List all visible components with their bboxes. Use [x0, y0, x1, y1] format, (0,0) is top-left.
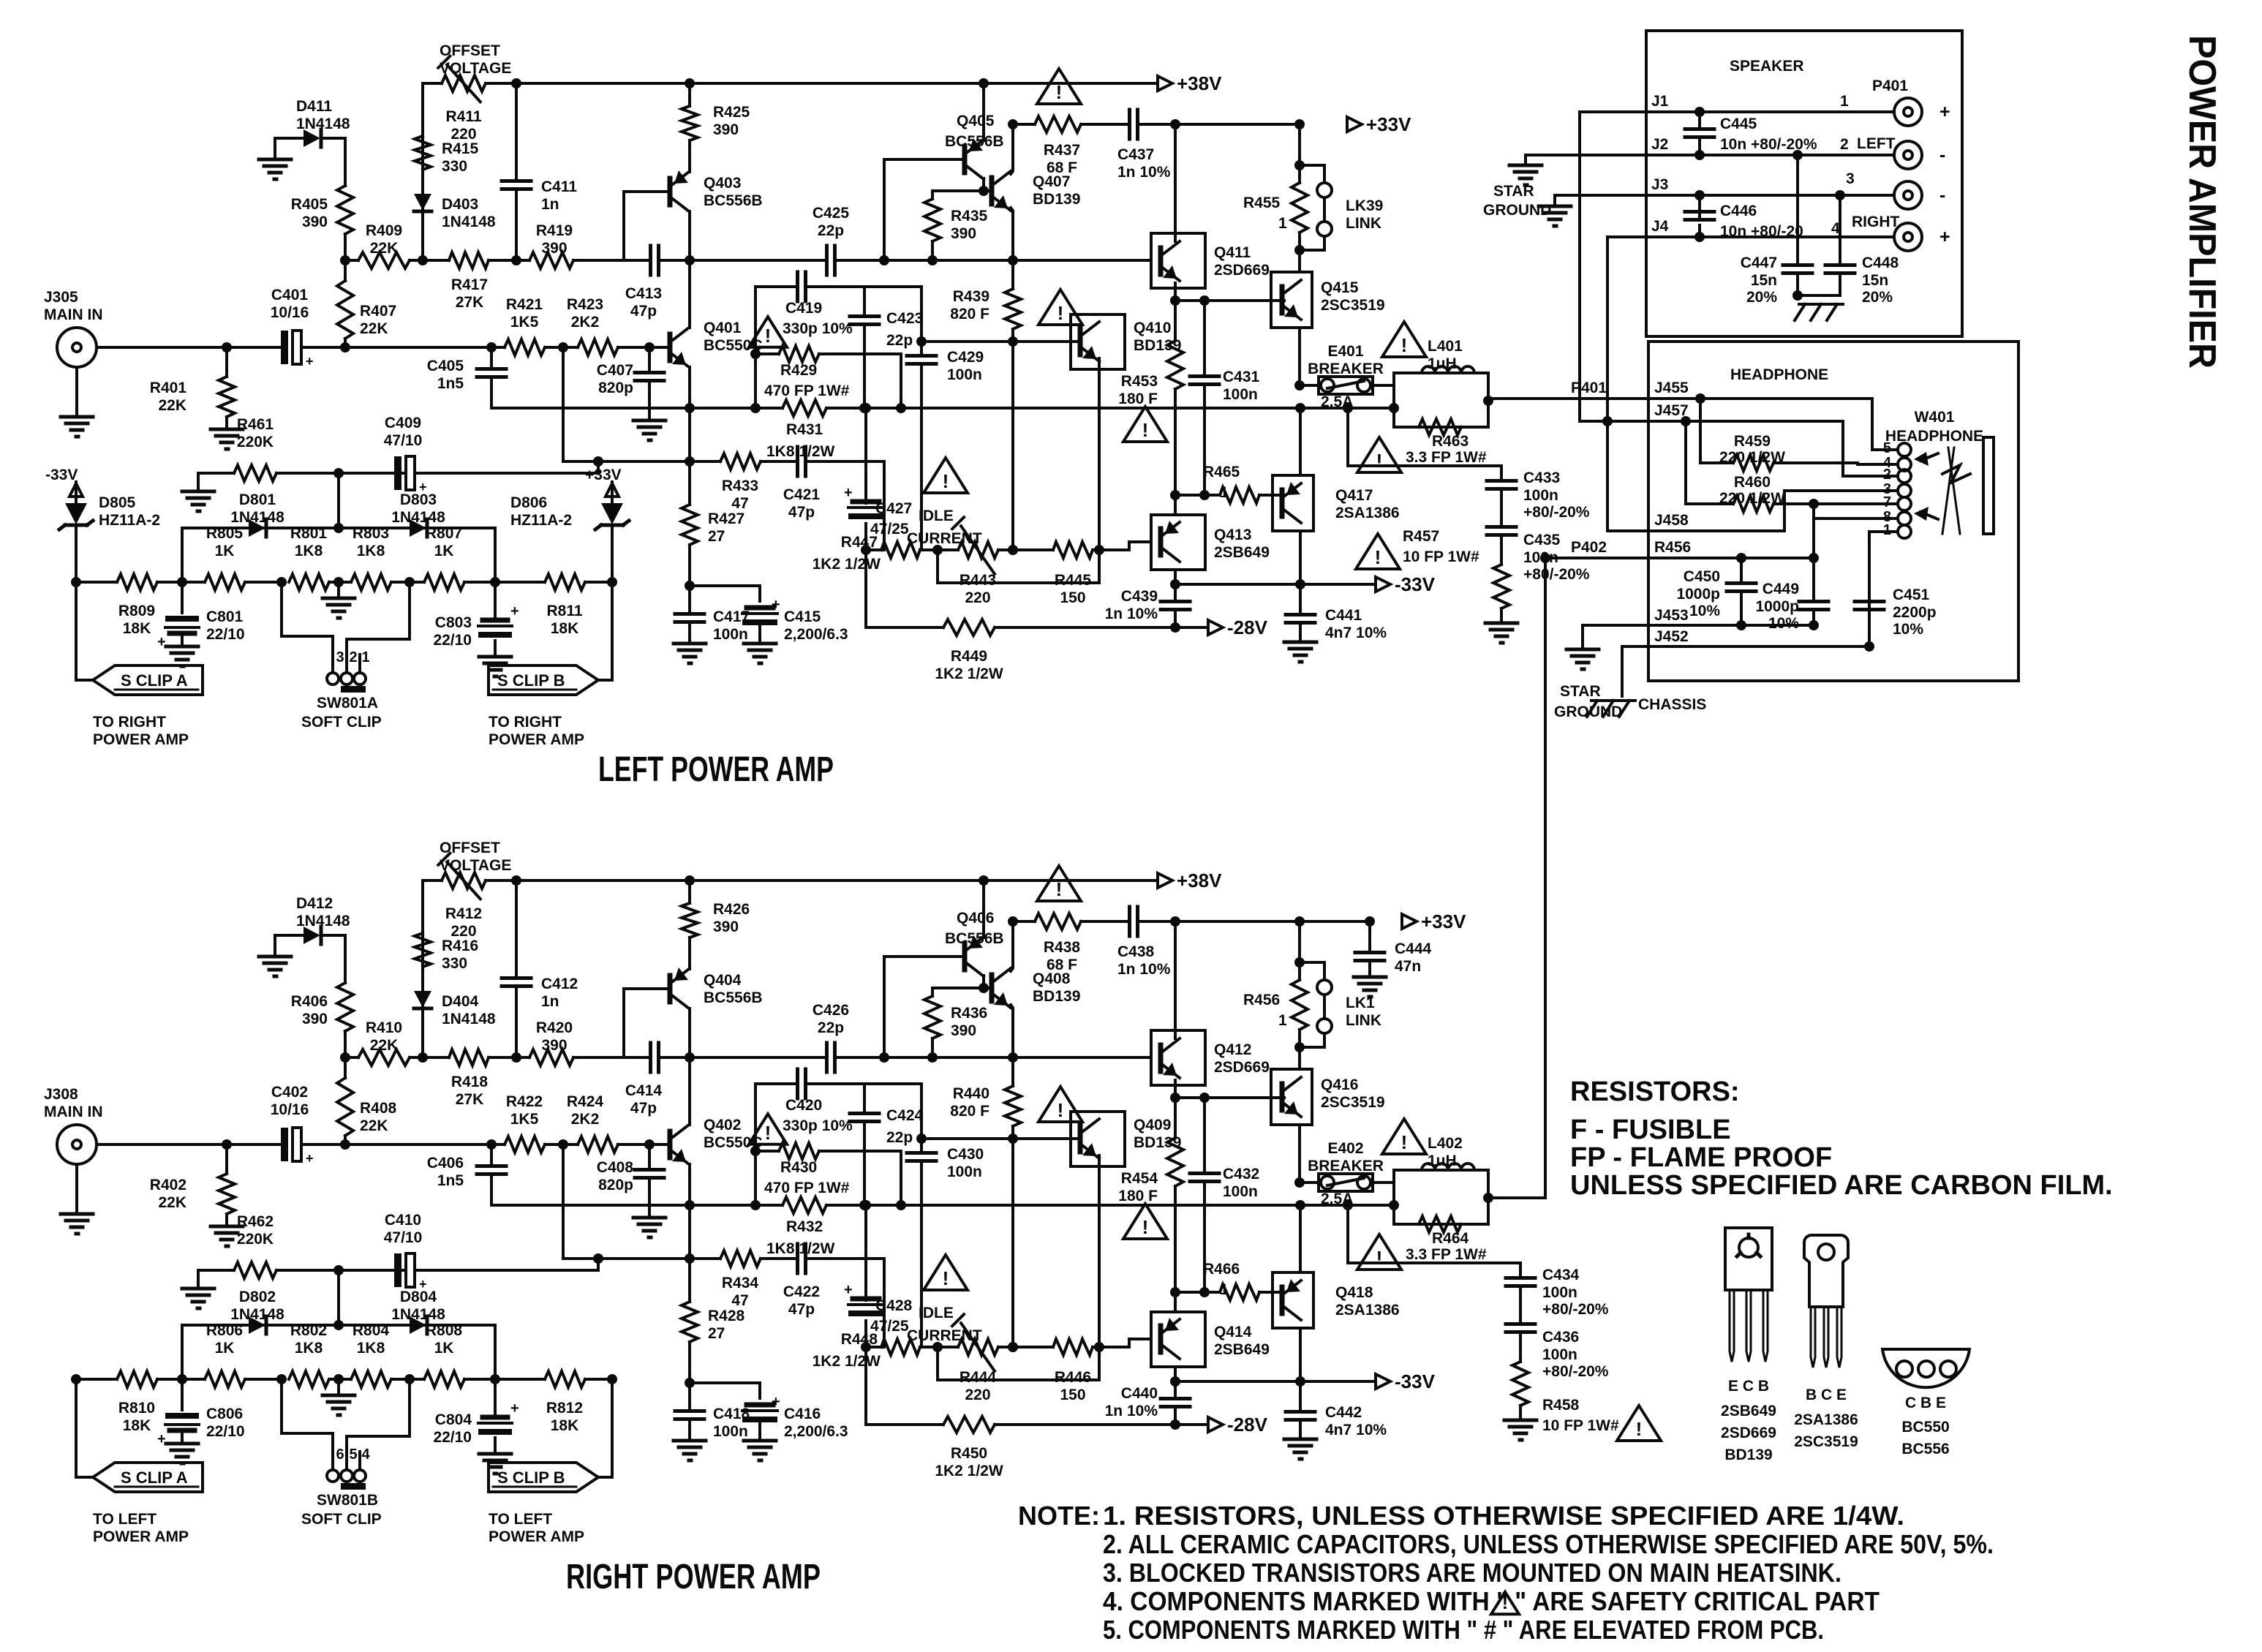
- svg-text:7: 7: [1883, 494, 1891, 510]
- svg-text:!: !: [765, 325, 772, 347]
- svg-text:!: !: [1142, 1216, 1149, 1238]
- ground: [744, 644, 776, 663]
- capacitor C416 2,200/6.3: [742, 1394, 848, 1441]
- wire: [688, 1164, 691, 1302]
- safety warning triangle: [1123, 407, 1167, 442]
- wire: [688, 1008, 691, 1057]
- svg-text:1n 10%: 1n 10%: [1105, 606, 1158, 622]
- svg-text:5: 5: [1883, 440, 1891, 456]
- junction: [1008, 1134, 1018, 1144]
- svg-text:R806: R806: [206, 1322, 243, 1339]
- svg-text:1: 1: [361, 649, 369, 665]
- ground: [61, 417, 93, 437]
- svg-text:1n 10%: 1n 10%: [1117, 164, 1171, 181]
- wire: [1298, 921, 1301, 962]
- svg-text:C426: C426: [813, 1002, 849, 1019]
- capacitor C440 1n 10%: [1105, 1381, 1190, 1425]
- capacitor C427 47/25: [844, 408, 912, 627]
- capacitor C414 47p: [624, 1043, 690, 1117]
- svg-text:330p 10%: 330p 10%: [783, 1117, 853, 1134]
- transistor Q412 2SD669: [1151, 1030, 1270, 1085]
- svg-text:R803: R803: [353, 525, 389, 542]
- svg-text:!: !: [1376, 450, 1383, 472]
- junction: [685, 456, 695, 467]
- diode D404 1N4148: [414, 967, 496, 1057]
- svg-text:220 1/2W: 220 1/2W: [1719, 449, 1785, 466]
- svg-text:15n: 15n: [1862, 272, 1888, 289]
- svg-text:18K: 18K: [123, 620, 151, 637]
- ground: [633, 420, 666, 440]
- wire Q405 base: [884, 159, 965, 260]
- svg-text:C436: C436: [1542, 1329, 1579, 1346]
- svg-text:R426: R426: [713, 901, 750, 918]
- wire: [274, 935, 276, 957]
- junction: [979, 78, 989, 88]
- svg-text:2. ALL CERAMIC CAPACITORS, UNL: 2. ALL CERAMIC CAPACITORS, UNLESS OTHERW…: [1103, 1529, 1994, 1559]
- junction: [1094, 545, 1104, 555]
- resistor R802 1K8: [289, 1322, 339, 1387]
- capacitor C409 47/10: [384, 415, 427, 494]
- connector P401 pin2 -: [1894, 141, 1945, 169]
- capacitor C435 100n +80/-20%: [1487, 527, 1590, 584]
- svg-text:R406: R406: [291, 993, 328, 1010]
- svg-text:C435: C435: [1523, 532, 1561, 548]
- svg-text:330p 10%: 330p 10%: [783, 320, 853, 337]
- wire: [1298, 124, 1301, 165]
- wire diode row: [182, 1324, 495, 1327]
- wire J2: [1526, 136, 1894, 155]
- junction: [333, 523, 344, 533]
- junction: [222, 1139, 232, 1150]
- wire: [1684, 421, 1687, 504]
- wire output rail right: [901, 1204, 1394, 1207]
- wire J458 to pin3: [1784, 491, 1897, 531]
- wire Q410 base: [1013, 340, 1080, 343]
- wire Q417 emitter: [1299, 1205, 1302, 1272]
- svg-text:1K: 1K: [434, 1340, 454, 1357]
- svg-text:820p: 820p: [598, 1177, 633, 1193]
- svg-text:Q412: Q412: [1214, 1041, 1251, 1058]
- junction: [685, 1253, 695, 1264]
- svg-text:100n: 100n: [1223, 1183, 1258, 1200]
- resistor R803 1K8: [339, 525, 410, 590]
- svg-text:W401: W401: [1915, 409, 1955, 426]
- svg-text:HZ11A-2: HZ11A-2: [510, 512, 572, 529]
- svg-text:1000p: 1000p: [1755, 598, 1799, 615]
- svg-text:1K5: 1K5: [510, 1111, 539, 1128]
- wire output rail: [491, 407, 690, 410]
- svg-text:R438: R438: [1044, 939, 1081, 956]
- svg-text:Q411: Q411: [1214, 244, 1251, 261]
- svg-text:POWER AMP: POWER AMP: [93, 731, 189, 748]
- junction: [71, 1374, 617, 1384]
- svg-text:4n7 10%: 4n7 10%: [1325, 1422, 1387, 1438]
- junction: [685, 581, 695, 591]
- svg-text:R801: R801: [290, 525, 328, 542]
- resistor R437 68 F: [1013, 116, 1128, 176]
- svg-text:1K8: 1K8: [357, 1340, 385, 1357]
- svg-text:J3: J3: [1651, 176, 1668, 193]
- label J452: [1654, 628, 1689, 645]
- capacitor C432 100n: [1190, 1098, 1259, 1292]
- svg-text:2: 2: [349, 649, 357, 665]
- wire: [181, 1325, 184, 1379]
- svg-text:1K8 1/2W: 1K8 1/2W: [766, 443, 835, 460]
- wire: [688, 367, 691, 505]
- svg-text:+33V: +33V: [1366, 113, 1411, 135]
- wire Q403 base: [624, 192, 670, 260]
- svg-text:POWER AMP: POWER AMP: [93, 1528, 189, 1545]
- svg-text:10n +80/-20: 10n +80/-20: [1720, 223, 1803, 240]
- junction: [71, 577, 617, 587]
- svg-text:820 F: 820 F: [950, 306, 989, 323]
- junction: [486, 1139, 497, 1150]
- junction: [511, 78, 521, 88]
- svg-text:C438: C438: [1117, 943, 1155, 960]
- resistor R810 18K: [117, 1371, 157, 1434]
- svg-text:S CLIP B: S CLIP B: [497, 1468, 565, 1487]
- svg-text:R407: R407: [360, 303, 396, 320]
- wire: [900, 354, 902, 408]
- svg-text:1K: 1K: [215, 1340, 235, 1357]
- svg-text:E401: E401: [1327, 343, 1363, 360]
- junction: [750, 1134, 927, 1156]
- svg-text:10%: 10%: [1768, 615, 1799, 632]
- wire: [883, 1259, 886, 1347]
- svg-text:C423: C423: [886, 310, 923, 327]
- svg-text:LINK: LINK: [1346, 215, 1381, 232]
- wire output rail: [491, 1204, 690, 1207]
- svg-text:IDLE: IDLE: [919, 508, 954, 524]
- title LEFT POWER AMP: [598, 750, 834, 789]
- svg-text:C421: C421: [783, 486, 821, 503]
- svg-text:!: !: [1376, 1247, 1383, 1269]
- svg-text:C402: C402: [271, 1084, 308, 1101]
- safety warning triangle: [1038, 290, 1082, 325]
- svg-text:+33V: +33V: [585, 467, 622, 483]
- svg-text:B C E: B C E: [1806, 1387, 1847, 1403]
- wire Q405 emitter: [982, 880, 985, 938]
- resistor R809 18K: [117, 574, 157, 637]
- svg-text:3.3 FP 1W#: 3.3 FP 1W#: [1406, 449, 1487, 466]
- wire Q405 collector: [979, 976, 989, 993]
- resistor R402 22K: [150, 1144, 235, 1226]
- svg-text:C407: C407: [597, 362, 633, 379]
- label IDLE CURRENT: [907, 508, 982, 547]
- svg-text:-33V: -33V: [45, 467, 78, 483]
- supply arrow -33V: [1376, 573, 1436, 595]
- svg-text:R804: R804: [353, 1322, 390, 1339]
- junction: [1602, 416, 1613, 426]
- star ground below headphone: [1554, 649, 1622, 720]
- svg-text:2K2: 2K2: [571, 314, 600, 331]
- svg-text:Q409: Q409: [1134, 1117, 1171, 1134]
- svg-text:BD139: BD139: [1134, 337, 1181, 354]
- wire Q411 base: [0, 0, 1, 1]
- wire idle loop: [938, 1347, 1099, 1380]
- svg-text:22p: 22p: [886, 1129, 913, 1146]
- svg-text:5: 5: [349, 1447, 357, 1463]
- junction: [1008, 336, 1018, 347]
- junction: [593, 456, 603, 467]
- svg-text:1: 1: [1220, 1281, 1229, 1298]
- capacitor C441 4n7 10%: [1286, 584, 1387, 642]
- svg-text:2SA1386: 2SA1386: [1335, 505, 1400, 521]
- svg-text:C434: C434: [1542, 1267, 1580, 1283]
- resistor R434 47: [690, 1251, 797, 1309]
- svg-text:BC556B: BC556B: [945, 930, 1004, 947]
- svg-text:390: 390: [951, 1022, 976, 1039]
- junction: [1343, 1193, 1493, 1210]
- svg-text:2200p: 2200p: [1893, 604, 1937, 621]
- svg-text:1K8 1/2W: 1K8 1/2W: [766, 1240, 835, 1257]
- svg-text:2: 2: [1840, 136, 1849, 153]
- svg-text:C440: C440: [1121, 1385, 1158, 1402]
- svg-text:+: +: [510, 1400, 519, 1417]
- junction: [404, 1374, 415, 1384]
- svg-text:C432: C432: [1223, 1166, 1259, 1183]
- svg-text:C441: C441: [1325, 607, 1362, 624]
- junction: [1809, 499, 1819, 509]
- wire: [1174, 1292, 1177, 1312]
- svg-text:1K2 1/2W: 1K2 1/2W: [935, 665, 1003, 682]
- svg-text:P402: P402: [1571, 539, 1607, 556]
- svg-text:C449: C449: [1763, 581, 1799, 597]
- svg-text:C409: C409: [385, 415, 421, 431]
- resistor R455 1: [1243, 165, 1308, 250]
- resistor R424 2K2: [567, 1093, 670, 1153]
- svg-text:1K: 1K: [434, 543, 454, 559]
- wire: [1099, 548, 1129, 551]
- inductor L402 1uH: [1394, 1135, 1488, 1224]
- junction: [750, 403, 761, 413]
- svg-text:POWER AMPLIFIER: POWER AMPLIFIER: [2181, 35, 2223, 369]
- svg-text:47: 47: [731, 1292, 748, 1309]
- svg-text:15n: 15n: [1751, 272, 1777, 289]
- svg-text:1N4148: 1N4148: [296, 116, 350, 132]
- svg-text:R810: R810: [118, 1400, 155, 1417]
- svg-text:C420: C420: [785, 1097, 822, 1114]
- svg-text:D412: D412: [296, 895, 333, 912]
- junction: [1008, 1342, 1018, 1352]
- wire Q405 collector: [979, 178, 989, 196]
- svg-text:2SC3519: 2SC3519: [1321, 297, 1385, 314]
- resistor R427 27: [682, 505, 744, 586]
- capacitor C444 47n: [1355, 921, 1432, 977]
- capacitor C442 4n7 10%: [1286, 1381, 1387, 1439]
- svg-text:J4: J4: [1651, 218, 1669, 235]
- svg-text:R417: R417: [451, 276, 488, 293]
- wire: [688, 260, 691, 328]
- safety warning triangle: [1123, 1204, 1167, 1239]
- junction: [333, 577, 344, 587]
- svg-text:+: +: [1939, 227, 1950, 247]
- wire Q417 collector: [1299, 531, 1302, 584]
- transistor Q411 2SD669: [1151, 233, 1270, 288]
- junction: [685, 1200, 695, 1210]
- svg-text:SW801A: SW801A: [317, 695, 378, 712]
- svg-text:1N4148: 1N4148: [442, 1011, 496, 1027]
- svg-text:47p: 47p: [630, 303, 657, 320]
- junction: [333, 468, 344, 478]
- svg-text:P401: P401: [1872, 78, 1908, 94]
- svg-text:R440: R440: [953, 1085, 989, 1102]
- resistor R432 1K8 1/2W: [690, 1197, 901, 1257]
- svg-text:4n7 10%: 4n7 10%: [1325, 625, 1387, 641]
- resistor R457 10 FP 1W#: [1493, 565, 1509, 623]
- junction: [1809, 553, 1819, 563]
- svg-text:R464: R464: [1432, 1230, 1469, 1247]
- ground: [323, 598, 355, 618]
- ground: [1354, 977, 1386, 997]
- junction: [1540, 553, 1550, 563]
- svg-text:BD139: BD139: [1134, 1134, 1181, 1151]
- resistor R433 47: [690, 453, 797, 512]
- resistor R425 390: [682, 83, 750, 172]
- resistor R445 150: [998, 542, 1129, 606]
- svg-text:C431: C431: [1223, 369, 1260, 385]
- wire: [754, 287, 757, 408]
- svg-text:C427: C427: [875, 500, 912, 517]
- wire output rail right: [901, 407, 1394, 410]
- transistor Q417 2SA1386: [1273, 475, 1400, 531]
- junction: [685, 78, 695, 88]
- ground: [182, 1289, 214, 1308]
- wire: [494, 1325, 497, 1379]
- safety warning triangle: [1357, 1234, 1401, 1270]
- svg-text:R443: R443: [960, 572, 996, 589]
- zener diode D806 HZ11A-2: [510, 494, 629, 582]
- svg-text:!: !: [765, 1122, 772, 1144]
- svg-text:Q403: Q403: [704, 175, 741, 192]
- wire bias rail right: [1013, 1056, 1151, 1059]
- connector J305 MAIN IN: [44, 289, 103, 417]
- svg-text:1n: 1n: [541, 993, 559, 1010]
- svg-text:F - FUSIBLE: F - FUSIBLE: [1570, 1114, 1731, 1145]
- chassis ground: [1795, 304, 1843, 320]
- ground: [479, 657, 511, 676]
- supply arrow +33V: [585, 467, 622, 499]
- wire feedback tap: [562, 1144, 565, 1259]
- wire +33V rail: [1175, 920, 1370, 923]
- svg-text:10/16: 10/16: [271, 1101, 309, 1118]
- svg-text:2K2: 2K2: [571, 1111, 600, 1128]
- svg-text:C422: C422: [783, 1283, 820, 1300]
- junction: [1170, 1419, 1180, 1430]
- svg-text:R809: R809: [118, 603, 155, 619]
- svg-text:R410: R410: [366, 1019, 402, 1036]
- wire diode row: [182, 527, 495, 529]
- svg-text:C437: C437: [1117, 146, 1154, 163]
- junction: [404, 577, 415, 587]
- svg-text:C442: C442: [1325, 1404, 1362, 1421]
- wire: [690, 1383, 760, 1398]
- svg-text:1N4148: 1N4148: [230, 1306, 284, 1323]
- wire R456 row: [1545, 557, 1814, 559]
- svg-text:C444: C444: [1395, 940, 1432, 957]
- svg-text:20%: 20%: [1746, 289, 1777, 306]
- wire: [920, 287, 923, 342]
- svg-text:2SB649: 2SB649: [1214, 544, 1270, 561]
- svg-text:R808: R808: [426, 1322, 463, 1339]
- svg-text:LK39: LK39: [1346, 197, 1383, 214]
- svg-text:D806: D806: [510, 494, 547, 511]
- junction: [896, 1200, 906, 1210]
- capacitor C419 330p 10%: [755, 272, 921, 337]
- svg-text:150: 150: [1060, 589, 1085, 606]
- svg-text:C445: C445: [1720, 116, 1757, 132]
- junction: [340, 1139, 350, 1150]
- wire right output: [1488, 1196, 1545, 1199]
- safety warning triangle: [749, 1114, 787, 1144]
- svg-text:R436: R436: [951, 1005, 987, 1022]
- junction: [979, 875, 989, 886]
- svg-text:R463: R463: [1432, 433, 1469, 450]
- resistor R419 390: [516, 222, 624, 268]
- junction: [932, 545, 943, 555]
- wire: [884, 259, 1013, 262]
- junction: [1008, 916, 1018, 927]
- resistor R454 180 F: [1118, 1098, 1183, 1292]
- svg-text:R461: R461: [237, 416, 274, 433]
- svg-text:J458: J458: [1654, 512, 1689, 529]
- safety warning triangle: [924, 458, 968, 493]
- ground: [259, 957, 291, 976]
- supply arrow +33V: [1347, 113, 1411, 135]
- resistor R412 220 offset trimmer: [438, 853, 516, 940]
- resistor R417 27K: [423, 252, 516, 311]
- wire Q417 collector: [1299, 1328, 1302, 1381]
- wire: [598, 1379, 612, 1477]
- wire: [1835, 190, 1845, 263]
- svg-text:+38V: +38V: [1177, 72, 1222, 94]
- svg-text:R433: R433: [722, 478, 758, 494]
- svg-text:3: 3: [1846, 170, 1855, 187]
- svg-text:2SC3519: 2SC3519: [1321, 1094, 1385, 1111]
- wire feedback row: [563, 1257, 690, 1260]
- resistor R418 27K: [423, 1049, 516, 1108]
- svg-text:Q413: Q413: [1214, 527, 1251, 543]
- svg-text:FP - FLAME PROOF: FP - FLAME PROOF: [1570, 1142, 1832, 1173]
- svg-text:Q404: Q404: [704, 972, 742, 989]
- svg-text:SOFT CLIP: SOFT CLIP: [301, 1511, 382, 1528]
- svg-text:3.3 FP 1W#: 3.3 FP 1W#: [1406, 1246, 1487, 1263]
- svg-text:C411: C411: [541, 178, 577, 195]
- resistor R456 1: [1243, 962, 1308, 1047]
- junction: [222, 342, 232, 352]
- svg-text:BC556B: BC556B: [945, 133, 1004, 150]
- svg-text:TO LEFT: TO LEFT: [93, 1511, 157, 1528]
- svg-text:18K: 18K: [551, 620, 579, 637]
- svg-text:C429: C429: [947, 349, 984, 366]
- capacitor C434 100n +80/-20%: [1506, 1267, 1609, 1324]
- wire: [900, 1151, 902, 1205]
- svg-text:Q417: Q417: [1335, 487, 1373, 504]
- svg-text:+80/-20%: +80/-20%: [1542, 1363, 1609, 1380]
- junction: [1294, 119, 1305, 129]
- svg-text:-: -: [1939, 185, 1945, 205]
- svg-text:1N4148: 1N4148: [296, 913, 350, 929]
- svg-text:100n: 100n: [947, 366, 982, 383]
- capacitor C412 1n: [502, 880, 578, 1057]
- svg-text:150: 150: [1060, 1387, 1085, 1403]
- junction: [1170, 490, 1210, 500]
- svg-text:27K: 27K: [456, 294, 484, 311]
- net flag S CLIP B: [489, 665, 598, 748]
- svg-text:MAIN IN: MAIN IN: [44, 306, 103, 323]
- svg-text:1N4148: 1N4148: [391, 1306, 445, 1323]
- svg-text:R448: R448: [841, 1331, 878, 1348]
